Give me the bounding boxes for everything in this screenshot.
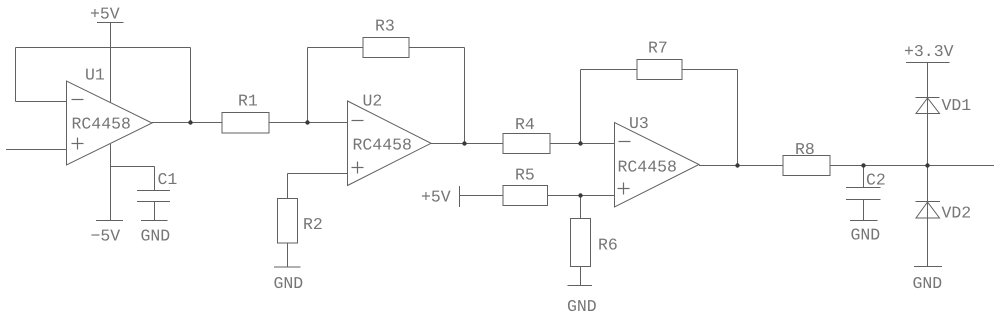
svg-text:+5V: +5V	[421, 188, 451, 207]
svg-text:GND: GND	[567, 297, 597, 316]
svg-text:GND: GND	[913, 274, 943, 293]
svg-text:GND: GND	[851, 226, 881, 245]
svg-text:RC4458: RC4458	[72, 115, 131, 134]
svg-text:RC4458: RC4458	[618, 158, 677, 177]
svg-text:R3: R3	[375, 17, 395, 36]
svg-text:−5V: −5V	[91, 227, 121, 246]
svg-text:R5: R5	[515, 166, 535, 185]
svg-text:R1: R1	[238, 92, 258, 111]
svg-text:VD1: VD1	[942, 96, 972, 115]
svg-text:R6: R6	[598, 236, 618, 255]
svg-text:RC4458: RC4458	[353, 136, 412, 155]
svg-text:C1: C1	[158, 170, 178, 189]
svg-text:U3: U3	[629, 114, 649, 133]
svg-text:U1: U1	[85, 66, 105, 85]
svg-text:GND: GND	[141, 227, 171, 246]
svg-text:R4: R4	[515, 115, 535, 134]
svg-text:U2: U2	[363, 92, 383, 111]
svg-text:+3.3V: +3.3V	[904, 42, 954, 61]
svg-text:R8: R8	[795, 140, 815, 159]
svg-text:VD2: VD2	[942, 204, 972, 223]
svg-text:R2: R2	[303, 215, 323, 234]
svg-text:R7: R7	[648, 39, 668, 58]
svg-text:+5V: +5V	[90, 5, 120, 24]
svg-text:C2: C2	[866, 171, 886, 190]
svg-text:GND: GND	[274, 274, 304, 293]
